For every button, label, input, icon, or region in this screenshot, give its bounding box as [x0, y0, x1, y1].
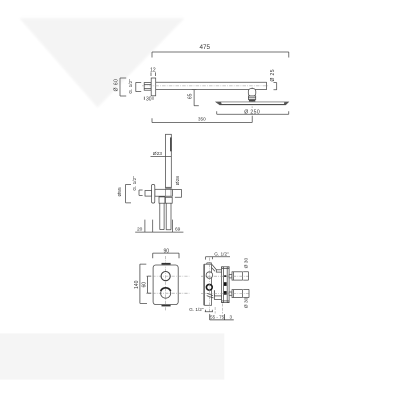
dimension 90 [153, 253, 179, 258]
dimension 12 (flange) [151, 72, 156, 76]
handle joint line [166, 186, 172, 188]
arm tube [156, 82, 267, 89]
svg-text:60: 60 [142, 282, 148, 288]
plate top cap [222, 267, 230, 269]
dimension G1/2 top [206, 257, 231, 260]
svg-text:69: 69 [175, 226, 181, 232]
knob top stem [229, 275, 232, 278]
centerline knob2 [146, 292, 189, 294]
dimension 65 bracket [192, 90, 199, 106]
D23 leader [151, 155, 172, 157]
svg-text:55 - 75: 55 - 75 [210, 315, 225, 320]
body top boss [207, 263, 212, 264]
dimension D25 bracket [274, 83, 277, 90]
head centerline [251, 87, 253, 108]
plate bottom cap [222, 301, 230, 303]
dimension D60 bracket [120, 78, 126, 96]
bottom-left labels [134, 248, 169, 289]
dimension D55 bracket [126, 184, 131, 203]
dimension D250 line [217, 111, 289, 114]
wall plate [152, 184, 155, 203]
svg-text:350: 350 [198, 117, 206, 122]
svg-text:Ø 30: Ø 30 [244, 297, 250, 308]
dimension 30 (projection) [144, 97, 153, 100]
svg-text:Ø 60: Ø 60 [113, 79, 119, 92]
svg-text:30: 30 [146, 96, 152, 102]
svg-text:475: 475 [200, 44, 211, 51]
shower head disc [216, 102, 289, 105]
dimension D28 bracket [173, 190, 182, 198]
bottom outlet fitting [213, 290, 215, 298]
svg-text:65: 65 [188, 93, 194, 99]
svg-text:Ø 250: Ø 250 [244, 109, 260, 115]
hose tube left [160, 203, 164, 229]
dimension 60 bracket [148, 276, 152, 293]
wall nipple [145, 191, 152, 197]
bottom dims 20/69 [135, 220, 183, 233]
top labels [113, 44, 276, 122]
nut [248, 96, 255, 100]
dimension G1/2 bottom [205, 310, 213, 312]
svg-text:G. 1/2": G. 1/2" [214, 251, 229, 256]
plate blob 2 [224, 291, 227, 295]
lower dark ring [206, 284, 212, 290]
plate bar left [222, 267, 224, 303]
box 55-75 [210, 314, 234, 320]
hub [249, 100, 255, 102]
hand shower handle [166, 134, 172, 188]
svg-text:Ø55: Ø55 [117, 187, 123, 197]
arm centerline [142, 85, 269, 87]
knob top lip [233, 272, 235, 280]
top port piece [216, 270, 222, 272]
middle labels [117, 151, 181, 232]
bottom-right labels [189, 251, 250, 319]
hose tube right [166, 203, 171, 230]
svg-text:Ø23: Ø23 [153, 151, 163, 157]
top port mark [162, 263, 171, 265]
dimension 475 line [152, 52, 289, 58]
svg-text:Ø 25: Ø 25 [270, 69, 276, 81]
mixer plate [153, 265, 178, 305]
svg-text:Ø 30: Ø 30 [243, 258, 249, 269]
ball joint [248, 89, 256, 96]
knob bottom lip [233, 290, 235, 298]
svg-text:90: 90 [163, 248, 169, 254]
knob top [161, 272, 170, 281]
knob bottom stem [229, 292, 232, 295]
dimension D30 bottom bracket [243, 289, 249, 297]
plate bar right [227, 267, 229, 303]
body centerline [208, 258, 210, 314]
svg-text:G. 1/2": G. 1/2" [132, 176, 137, 191]
top pipe diagonal [212, 265, 217, 272]
wall stub pipe [144, 83, 151, 91]
dimension 140 bracket [140, 264, 147, 303]
flange plate [151, 78, 156, 96]
vertical centerline [165, 256, 167, 311]
knob bottom lever arc [161, 288, 171, 291]
dimension G1/2 bracket [136, 82, 141, 91]
knob bottom body [232, 290, 242, 298]
body back line [203, 264, 205, 305]
plate blob top [224, 275, 226, 277]
dimension D30 top bracket [243, 272, 248, 280]
hose connector right [165, 197, 172, 203]
svg-text:G. 1/2": G. 1/2" [128, 79, 133, 94]
holder body [155, 189, 173, 196]
extension dash b [221, 304, 223, 314]
extension dash a [214, 307, 216, 314]
bottom pipe diagonal [207, 293, 214, 298]
handle spray stripe [170, 137, 171, 151]
knob top body [232, 272, 242, 280]
svg-text:Ø28: Ø28 [175, 176, 181, 186]
centerline knob bottom [201, 292, 250, 294]
gray bottom band [0, 333, 224, 379]
dimension G1/2 bracket middle [139, 190, 143, 195]
dimension 350 line [152, 116, 252, 123]
plate blob 1 [224, 282, 227, 286]
valve body [205, 264, 212, 305]
svg-text:12: 12 [150, 68, 156, 74]
knob bottom [161, 288, 171, 298]
centerline knob1 [146, 275, 189, 277]
bottom port piece [214, 296, 221, 300]
upper circle [206, 272, 213, 279]
svg-text:20: 20 [137, 226, 143, 232]
hose connector left [159, 197, 165, 203]
svg-text:G. 1/2": G. 1/2" [189, 307, 204, 312]
svg-text:140: 140 [134, 280, 140, 289]
centerline knob top [201, 275, 250, 277]
bottom port mark [162, 305, 171, 307]
